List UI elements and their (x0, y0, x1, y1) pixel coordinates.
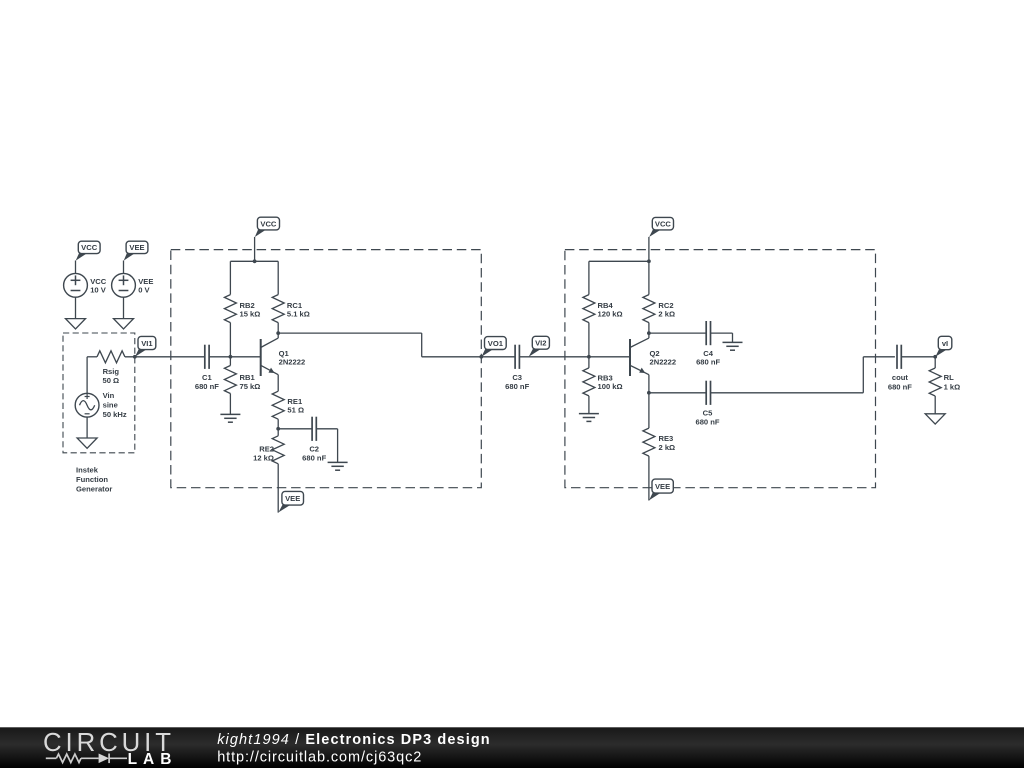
svg-text:C5: C5 (703, 408, 713, 417)
svg-text:51 Ω: 51 Ω (287, 406, 304, 415)
node base Q1 (229, 355, 233, 359)
svg-text:VCC: VCC (655, 219, 672, 228)
transistor Q1 2N2222 (260, 339, 262, 376)
wire (86, 357, 88, 394)
ground (RB3) (579, 413, 599, 415)
svg-text:1 kΩ: 1 kΩ (944, 382, 961, 391)
resistor RE1 51 Ω (272, 391, 284, 419)
svg-text:http://circuitlab.com/cj63qc2: http://circuitlab.com/cj63qc2 (217, 750, 422, 766)
svg-text:Generator: Generator (76, 485, 112, 494)
capacitor C5 680 nF (649, 392, 706, 394)
ground (VEE source) (114, 319, 134, 329)
svg-text:2 kΩ: 2 kΩ (659, 443, 676, 452)
ground (RB1) (220, 413, 240, 415)
svg-text:C2: C2 (309, 445, 319, 454)
resistor RE2 12 kΩ (277, 429, 279, 436)
net flag VCC (left) (76, 252, 89, 261)
transistor Q2 2N2222 (629, 339, 631, 376)
wire (648, 237, 650, 261)
svg-text:sine: sine (103, 401, 118, 410)
node VCC rail stage 2 (647, 259, 651, 263)
dashed box Instek Function Generator (63, 333, 135, 453)
svg-text:RB3: RB3 (598, 373, 613, 382)
svg-text:cout: cout (892, 373, 909, 382)
svg-text:RB1: RB1 (240, 373, 256, 382)
ground (Vin source) (77, 438, 97, 448)
resistor RB4 120 kΩ (588, 261, 590, 294)
svg-text:50 kHz: 50 kHz (103, 410, 127, 419)
svg-text:100 kΩ: 100 kΩ (598, 382, 623, 391)
capacitor C1 680 nF (204, 345, 206, 369)
svg-text:680 nF: 680 nF (195, 382, 219, 391)
ground (VCC source) (66, 319, 86, 329)
node emitter Q2 (647, 391, 651, 395)
svg-text:2N2222: 2N2222 (650, 358, 677, 367)
capacitor cout 680 nF (896, 345, 898, 369)
svg-text:2 kΩ: 2 kΩ (658, 310, 675, 319)
wire collector Q1 to VO1 (278, 332, 422, 334)
wire (125, 356, 205, 358)
svg-text:Vin: Vin (103, 391, 115, 400)
resistor RC2 2 kΩ (648, 261, 650, 294)
svg-text:LAB: LAB (128, 751, 178, 768)
resistor RL 1 kΩ (934, 357, 936, 368)
wire (86, 417, 88, 438)
wire (209, 356, 261, 358)
wire (123, 261, 125, 274)
svg-text:680 nF: 680 nF (695, 418, 719, 427)
dashed box amplifier stage 1 (171, 250, 482, 488)
capacitor C4 680 nF (649, 332, 706, 334)
net flag VEE (stage 1) (278, 504, 292, 513)
svg-text:C1: C1 (202, 373, 212, 382)
svg-text:VEE: VEE (285, 494, 300, 503)
svg-text:RE1: RE1 (287, 397, 303, 406)
svg-text:VCC: VCC (260, 219, 277, 228)
svg-text:15 kΩ: 15 kΩ (240, 310, 261, 319)
svg-text:C3: C3 (512, 373, 522, 382)
wire (75, 297, 77, 318)
svg-text:12 kΩ: 12 kΩ (253, 454, 274, 463)
node VO1 (479, 355, 483, 359)
svg-text:680 nF: 680 nF (505, 382, 529, 391)
resistor RE3 2 kΩ (648, 393, 650, 428)
svg-text:Function: Function (76, 475, 108, 484)
wire (254, 237, 256, 261)
wire (481, 356, 515, 358)
svg-text:VEE: VEE (129, 243, 144, 252)
svg-text:RL: RL (944, 373, 954, 382)
wire (87, 356, 97, 358)
svg-text:VCC: VCC (81, 243, 98, 252)
voltage source VCC 10 V (64, 273, 88, 297)
svg-text:680 nF: 680 nF (696, 358, 720, 367)
svg-text:5.1 kΩ: 5.1 kΩ (287, 310, 310, 319)
svg-text:680 nF: 680 nF (888, 382, 912, 391)
svg-text:120 kΩ: 120 kΩ (598, 310, 623, 319)
svg-text:Q1: Q1 (279, 349, 290, 358)
node base Q2 (587, 355, 591, 359)
node vI (933, 355, 937, 359)
dashed box amplifier stage 2 (565, 250, 876, 488)
net flag VCC (stage 1) (255, 228, 268, 237)
svg-text:2N2222: 2N2222 (279, 358, 306, 367)
svg-text:VI1: VI1 (141, 339, 153, 348)
wire (519, 356, 630, 358)
resistor RC1 5.1 kΩ (277, 261, 279, 294)
svg-text:0 V: 0 V (138, 286, 150, 295)
svg-text:VEE: VEE (655, 482, 670, 491)
svg-text:50 Ω: 50 Ω (102, 376, 119, 385)
svg-text:vI: vI (942, 339, 948, 348)
net flag VI2 (529, 348, 543, 357)
svg-text:75 kΩ: 75 kΩ (240, 382, 261, 391)
ground (C4) (723, 341, 743, 343)
footer bar (0, 727, 1024, 768)
wire top rail stage 1 (230, 260, 278, 262)
node collector Q2 (647, 331, 651, 335)
net flag vI (935, 348, 948, 357)
node emitter divider (276, 427, 280, 431)
svg-text:VI2: VI2 (535, 339, 546, 348)
capacitor C2 680 nF (278, 428, 312, 430)
source Vin sine 50 kHz (75, 393, 99, 417)
svg-text:Instek: Instek (76, 465, 99, 474)
svg-text:Q2: Q2 (650, 349, 660, 358)
wire top rail stage 2 (589, 260, 649, 262)
wire (75, 261, 77, 274)
node collector Q1 (276, 331, 280, 335)
net flag VEE (left) (124, 252, 137, 261)
svg-text:Rsig: Rsig (103, 367, 120, 376)
resistor RB3 100 kΩ (588, 357, 590, 368)
svg-text:VO1: VO1 (488, 339, 504, 348)
wire (123, 297, 125, 318)
resistor RB1 75 kΩ (229, 357, 231, 366)
net flag VCC (stage 2) (649, 228, 663, 237)
net flag VI1 (135, 348, 149, 357)
node VI1 (133, 355, 137, 359)
resistor Rsig 50 Ω (97, 351, 125, 363)
net flag VO1 (482, 348, 496, 357)
svg-text:RE2: RE2 (259, 445, 274, 454)
svg-text:10 V: 10 V (90, 286, 107, 295)
capacitor C3 680 nF (514, 345, 516, 369)
ground (C2) (328, 461, 348, 463)
svg-text:680 nF: 680 nF (302, 454, 326, 463)
ground (RL) (925, 414, 945, 424)
CircuitLab logo resistor-diode glyph (46, 754, 127, 764)
resistor RB2 15 kΩ (229, 261, 231, 294)
node VCC rail stage 1 (253, 259, 257, 263)
svg-text:RE3: RE3 (659, 434, 674, 443)
net flag VEE (stage 2) (649, 492, 662, 501)
voltage source VEE 0 V (112, 273, 136, 297)
svg-text:kight1994 / Electronics DP3 de: kight1994 / Electronics DP3 design (217, 732, 491, 748)
